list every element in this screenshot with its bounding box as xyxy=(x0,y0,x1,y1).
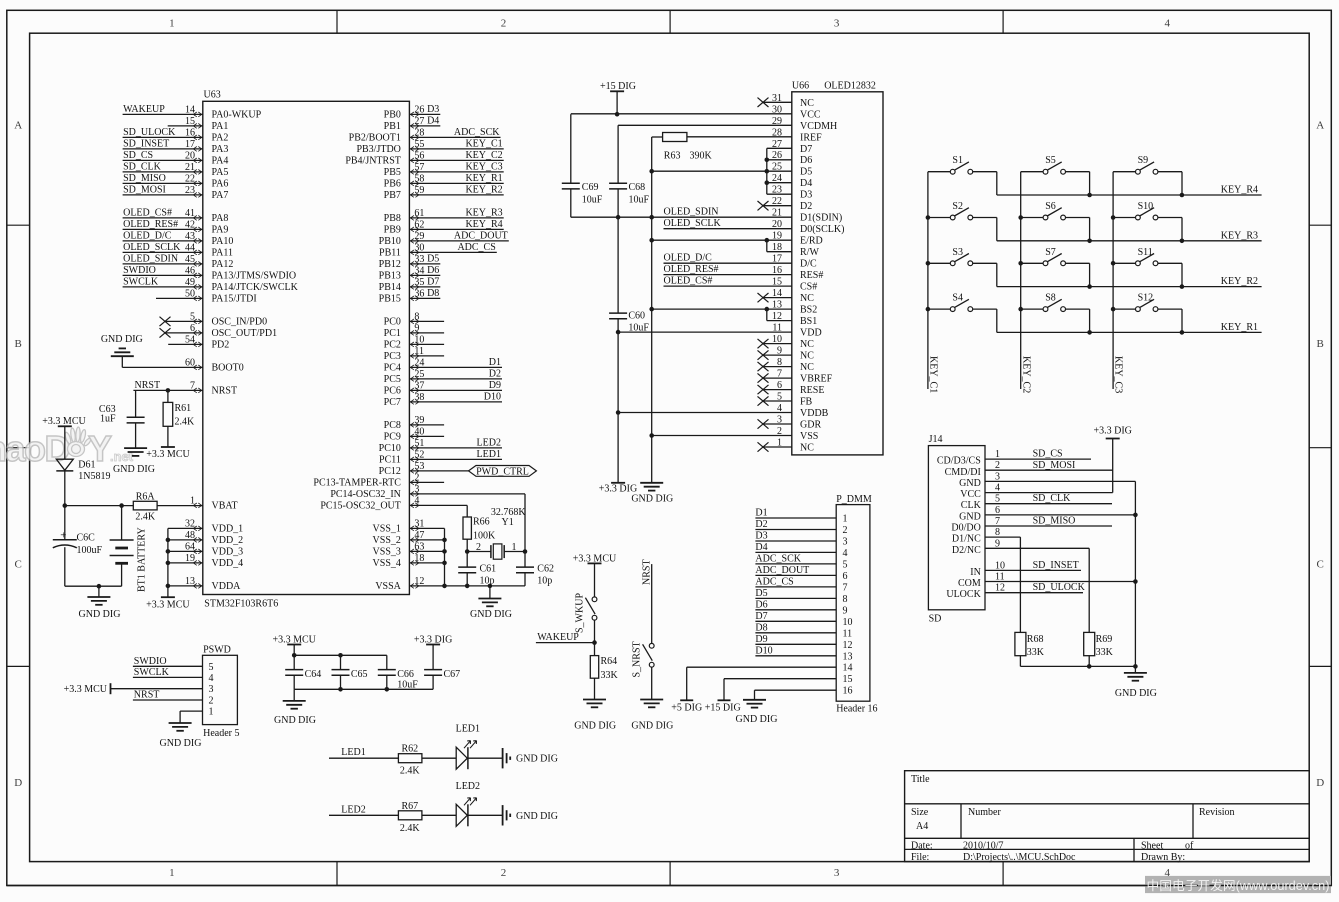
svg-text:D1/NC: D1/NC xyxy=(952,534,981,545)
svg-text:A4: A4 xyxy=(916,821,928,832)
svg-text:GND DIG: GND DIG xyxy=(516,811,558,822)
svg-text:C66: C66 xyxy=(397,669,414,680)
svg-text:S_NRST: S_NRST xyxy=(632,641,643,677)
svg-text:4: 4 xyxy=(209,673,214,684)
svg-text:J14: J14 xyxy=(929,434,943,445)
svg-text:S3: S3 xyxy=(952,247,963,258)
svg-text:OLED_SDIN: OLED_SDIN xyxy=(664,207,719,218)
svg-text:U66: U66 xyxy=(792,81,809,92)
svg-text:+3.3 MCU: +3.3 MCU xyxy=(64,684,108,695)
svg-text:PA10: PA10 xyxy=(212,236,234,247)
svg-text:R61: R61 xyxy=(175,403,192,414)
svg-text:IREF: IREF xyxy=(800,132,822,143)
svg-text:+3.3 MCU: +3.3 MCU xyxy=(146,449,190,460)
svg-text:1: 1 xyxy=(843,514,848,525)
svg-text:KEY_C3: KEY_C3 xyxy=(1113,356,1124,393)
svg-text:VCC: VCC xyxy=(960,489,981,500)
svg-text:LED1: LED1 xyxy=(477,449,501,460)
svg-text:PC15-OSC32_OUT: PC15-OSC32_OUT xyxy=(320,501,401,512)
svg-text:FB: FB xyxy=(800,397,813,408)
svg-text:PA7: PA7 xyxy=(212,190,229,201)
svg-text:4: 4 xyxy=(843,548,848,559)
svg-text:1: 1 xyxy=(169,18,175,30)
svg-text:WAKEUP: WAKEUP xyxy=(123,104,165,115)
svg-text:R66: R66 xyxy=(473,516,490,527)
svg-text:GND DIG: GND DIG xyxy=(160,738,202,749)
svg-text:PWD_CTRL: PWD_CTRL xyxy=(476,466,529,477)
svg-text:100K: 100K xyxy=(473,530,496,541)
svg-text:PC13-TAMPER-RTC: PC13-TAMPER-RTC xyxy=(313,478,401,489)
svg-text:11: 11 xyxy=(843,628,853,639)
svg-text:PC7: PC7 xyxy=(384,397,401,408)
svg-text:D2/NC: D2/NC xyxy=(952,545,981,556)
svg-text:PB1: PB1 xyxy=(384,121,401,132)
svg-text:D4: D4 xyxy=(755,542,767,553)
svg-text:PC3: PC3 xyxy=(384,351,401,362)
svg-text:KEY_R3: KEY_R3 xyxy=(465,207,502,218)
svg-text:E/RD: E/RD xyxy=(800,236,823,247)
svg-text:PB3/JTDO: PB3/JTDO xyxy=(356,144,400,155)
svg-text:D8: D8 xyxy=(427,288,439,299)
svg-text:BS2: BS2 xyxy=(800,305,817,316)
svg-text:PC14-OSC32_IN: PC14-OSC32_IN xyxy=(330,489,401,500)
svg-text:SD_MOSI: SD_MOSI xyxy=(123,184,166,195)
svg-text:Sheet: Sheet xyxy=(1141,841,1163,852)
svg-text:NC: NC xyxy=(800,351,814,362)
svg-text:D3: D3 xyxy=(427,104,439,115)
svg-text:C: C xyxy=(15,559,22,571)
svg-text:Y1: Y1 xyxy=(502,517,514,528)
svg-text:VBAT: VBAT xyxy=(212,501,238,512)
svg-text:NRST: NRST xyxy=(212,386,238,397)
svg-text:R63: R63 xyxy=(664,150,681,161)
svg-text:PA3: PA3 xyxy=(212,144,229,155)
svg-text:VCC: VCC xyxy=(800,109,821,120)
svg-text:2.4K: 2.4K xyxy=(400,766,421,777)
svg-text:D/C: D/C xyxy=(800,259,817,270)
svg-text:LED1: LED1 xyxy=(341,747,365,758)
svg-text:S9: S9 xyxy=(1138,155,1149,166)
svg-text:D3: D3 xyxy=(755,531,767,542)
svg-text:PB2/BOOT1: PB2/BOOT1 xyxy=(349,133,401,144)
svg-text:7: 7 xyxy=(843,582,848,593)
svg-text:PB12: PB12 xyxy=(379,259,401,270)
svg-text:10p: 10p xyxy=(537,576,552,587)
svg-text:SD_CLK: SD_CLK xyxy=(1033,493,1072,504)
svg-text:U63: U63 xyxy=(204,90,221,101)
svg-text:8: 8 xyxy=(843,594,848,605)
svg-text:ADC_CS: ADC_CS xyxy=(755,576,793,587)
svg-text:D1: D1 xyxy=(489,357,501,368)
svg-text:SD_INSET: SD_INSET xyxy=(123,138,169,149)
svg-text:PC11: PC11 xyxy=(379,455,401,466)
svg-text:ADC_DOUT: ADC_DOUT xyxy=(755,565,809,576)
svg-text:VSSA: VSSA xyxy=(375,581,401,592)
svg-text:+15 DIG: +15 DIG xyxy=(705,702,741,713)
svg-text:PB10: PB10 xyxy=(379,236,401,247)
svg-text:VDD: VDD xyxy=(800,328,822,339)
svg-text:D7: D7 xyxy=(800,144,812,155)
svg-text:SD_CS: SD_CS xyxy=(1033,449,1063,460)
svg-text:Date:: Date: xyxy=(911,841,933,852)
svg-text:1: 1 xyxy=(209,707,214,718)
svg-text:PA2: PA2 xyxy=(212,133,229,144)
svg-text:PB13: PB13 xyxy=(379,271,401,282)
svg-text:SD_CLK: SD_CLK xyxy=(123,161,162,172)
svg-text:SD_ULOCK: SD_ULOCK xyxy=(123,127,176,138)
svg-text:PA8: PA8 xyxy=(212,213,229,224)
svg-text:P_DMM: P_DMM xyxy=(836,494,872,505)
svg-text:S1: S1 xyxy=(952,155,963,166)
svg-text:D4: D4 xyxy=(427,115,439,126)
svg-text:CLK: CLK xyxy=(961,500,982,511)
svg-text:13: 13 xyxy=(843,651,853,662)
svg-text:GND: GND xyxy=(959,511,981,522)
svg-text:GND DIG: GND DIG xyxy=(516,754,558,765)
svg-text:Number: Number xyxy=(968,807,1001,818)
svg-text:B: B xyxy=(15,338,22,350)
svg-text:GND DIG: GND DIG xyxy=(631,720,673,731)
svg-text:Header 16: Header 16 xyxy=(836,704,877,715)
svg-text:S_WKUP: S_WKUP xyxy=(575,593,586,633)
svg-text:+3.3 MCU: +3.3 MCU xyxy=(146,599,190,610)
svg-text:10uF: 10uF xyxy=(582,194,603,205)
svg-text:2: 2 xyxy=(476,542,481,553)
svg-text:PA12: PA12 xyxy=(212,259,234,270)
svg-text:PA9: PA9 xyxy=(212,225,229,236)
svg-text:2010/10/7: 2010/10/7 xyxy=(963,841,1004,852)
svg-text:D9: D9 xyxy=(755,634,767,645)
svg-text:S6: S6 xyxy=(1045,201,1056,212)
svg-text:GND DIG: GND DIG xyxy=(574,720,616,731)
svg-text:PC10: PC10 xyxy=(379,443,401,454)
svg-text:D2: D2 xyxy=(489,368,501,379)
svg-text:R64: R64 xyxy=(601,656,618,667)
svg-text:PA0-WKUP: PA0-WKUP xyxy=(212,110,262,121)
svg-text:B: B xyxy=(1317,338,1324,350)
svg-text:A: A xyxy=(1316,120,1324,132)
svg-text:PC9: PC9 xyxy=(384,432,401,443)
svg-text:C64: C64 xyxy=(305,669,322,680)
svg-text:+3.3 DIG: +3.3 DIG xyxy=(1093,426,1131,437)
svg-text:R/W: R/W xyxy=(800,247,819,258)
svg-text:GND DIG: GND DIG xyxy=(1115,688,1157,699)
svg-text:PC4: PC4 xyxy=(384,363,401,374)
svg-text:D8: D8 xyxy=(755,622,767,633)
svg-text:R68: R68 xyxy=(1027,634,1044,645)
svg-text:COM: COM xyxy=(958,578,981,589)
svg-text:PB11: PB11 xyxy=(379,248,401,259)
svg-text:10: 10 xyxy=(843,617,853,628)
svg-text:SWCLK: SWCLK xyxy=(123,276,159,287)
svg-text:+15 DIG: +15 DIG xyxy=(600,81,636,92)
svg-text:VDD_2: VDD_2 xyxy=(212,535,244,546)
svg-text:1uF: 1uF xyxy=(100,413,116,424)
svg-text:R67: R67 xyxy=(401,801,418,812)
svg-text:VDD_1: VDD_1 xyxy=(212,524,244,535)
svg-text:SD_ULOCK: SD_ULOCK xyxy=(1033,582,1086,593)
svg-text:SD_MOSI: SD_MOSI xyxy=(1033,460,1076,471)
svg-text:A: A xyxy=(14,120,22,132)
svg-text:1: 1 xyxy=(169,867,175,879)
svg-text:PA1: PA1 xyxy=(212,121,229,132)
svg-text:OLED_D/C: OLED_D/C xyxy=(123,230,172,241)
svg-text:100uF: 100uF xyxy=(77,545,103,556)
svg-text:D6: D6 xyxy=(755,599,767,610)
svg-text:File:: File: xyxy=(911,852,929,863)
svg-text:C65: C65 xyxy=(351,669,368,680)
svg-text:33K: 33K xyxy=(1027,647,1045,658)
svg-text:D3: D3 xyxy=(800,190,812,201)
svg-text:KEY_R1: KEY_R1 xyxy=(465,173,502,184)
svg-text:KEY_R4: KEY_R4 xyxy=(465,219,502,230)
svg-text:14: 14 xyxy=(843,663,853,674)
svg-text:PA14/JTCK/SWCLK: PA14/JTCK/SWCLK xyxy=(212,282,299,293)
svg-text:Title: Title xyxy=(911,774,930,785)
svg-text:LED2: LED2 xyxy=(477,437,501,448)
svg-text:OSC_IN/PD0: OSC_IN/PD0 xyxy=(212,317,268,328)
svg-text:KEY_C2: KEY_C2 xyxy=(1020,356,1031,393)
svg-text:PSWD: PSWD xyxy=(203,645,231,656)
svg-text:PC6: PC6 xyxy=(384,386,401,397)
svg-text:VSS_4: VSS_4 xyxy=(373,558,401,569)
svg-text:D5: D5 xyxy=(800,167,812,178)
svg-text:KEY_C1: KEY_C1 xyxy=(465,138,502,149)
svg-text:OLED_CS#: OLED_CS# xyxy=(123,207,172,218)
svg-text:GND: GND xyxy=(959,478,981,489)
svg-text:D9: D9 xyxy=(489,380,501,391)
svg-text:BOOT0: BOOT0 xyxy=(212,363,244,374)
svg-text:33K: 33K xyxy=(601,670,619,681)
svg-text:VDD_4: VDD_4 xyxy=(212,558,244,569)
svg-text:SWDIO: SWDIO xyxy=(134,656,167,667)
svg-text:PA6: PA6 xyxy=(212,179,229,190)
svg-text:RES#: RES# xyxy=(800,270,823,281)
svg-text:LED2: LED2 xyxy=(341,804,365,815)
svg-text:D61: D61 xyxy=(78,460,95,471)
svg-text:D0/DO: D0/DO xyxy=(951,523,980,534)
svg-text:OLED_D/C: OLED_D/C xyxy=(664,253,713,264)
svg-text:C67: C67 xyxy=(444,669,461,680)
svg-text:VBREF: VBREF xyxy=(800,374,833,385)
svg-text:C: C xyxy=(1317,559,1324,571)
svg-text:D0(SCLK): D0(SCLK) xyxy=(800,224,844,235)
svg-text:+5 DIG: +5 DIG xyxy=(671,702,702,713)
svg-text:2: 2 xyxy=(501,18,507,30)
svg-text:OLED_SDIN: OLED_SDIN xyxy=(123,253,178,264)
svg-text:SWDIO: SWDIO xyxy=(123,265,156,276)
svg-text:D10: D10 xyxy=(755,645,772,656)
svg-text:PA15/JTDI: PA15/JTDI xyxy=(212,294,257,305)
svg-text:R62: R62 xyxy=(401,744,418,755)
svg-text:S5: S5 xyxy=(1045,155,1056,166)
svg-text:S11: S11 xyxy=(1138,247,1153,258)
svg-text:PA5: PA5 xyxy=(212,167,229,178)
svg-text:9: 9 xyxy=(843,605,848,616)
svg-text:S7: S7 xyxy=(1045,247,1056,258)
svg-text:ADC_CS: ADC_CS xyxy=(457,242,495,253)
svg-text:D5: D5 xyxy=(755,588,767,599)
svg-text:OLED_RES#: OLED_RES# xyxy=(664,264,719,275)
svg-text:2.4K: 2.4K xyxy=(135,512,156,523)
svg-text:KEY_C1: KEY_C1 xyxy=(928,356,939,393)
svg-text:2.4K: 2.4K xyxy=(175,417,196,428)
svg-text:Header 5: Header 5 xyxy=(203,728,239,739)
svg-text:BT1 BATTERY: BT1 BATTERY xyxy=(137,527,148,592)
svg-text:NC: NC xyxy=(800,339,814,350)
svg-text:6: 6 xyxy=(843,571,848,582)
svg-text:LED1: LED1 xyxy=(456,724,480,735)
svg-text:12: 12 xyxy=(843,640,853,651)
svg-text:S8: S8 xyxy=(1045,293,1056,304)
svg-text:ADC_SCK: ADC_SCK xyxy=(454,127,500,138)
svg-text:PB4/JNTRST: PB4/JNTRST xyxy=(345,156,401,167)
svg-text:5: 5 xyxy=(843,559,848,570)
svg-text:R69: R69 xyxy=(1096,634,1113,645)
svg-text:15: 15 xyxy=(843,674,853,685)
svg-text:D10: D10 xyxy=(484,391,501,402)
svg-text:WAKEUP: WAKEUP xyxy=(537,632,579,643)
svg-text:STM32F103R6T6: STM32F103R6T6 xyxy=(204,599,278,610)
svg-text:SD_MISO: SD_MISO xyxy=(1033,516,1076,527)
svg-text:S12: S12 xyxy=(1138,293,1154,304)
svg-text:CS#: CS# xyxy=(800,282,817,293)
svg-text:10uF: 10uF xyxy=(629,194,650,205)
svg-text:3: 3 xyxy=(834,18,840,30)
svg-text:Revision: Revision xyxy=(1199,807,1235,818)
svg-text:D4: D4 xyxy=(800,178,812,189)
svg-text:2: 2 xyxy=(501,867,507,879)
svg-text:PC12: PC12 xyxy=(379,466,401,477)
svg-text:C6C: C6C xyxy=(77,533,96,544)
svg-text:3: 3 xyxy=(834,867,840,879)
svg-text:of: of xyxy=(1185,841,1194,852)
svg-text:PC1: PC1 xyxy=(384,328,401,339)
svg-text:PB15: PB15 xyxy=(379,294,401,305)
svg-text:Drawn By:: Drawn By: xyxy=(1141,852,1185,863)
svg-text:KEY_R3: KEY_R3 xyxy=(1221,230,1258,241)
svg-text:VSS: VSS xyxy=(800,431,818,442)
svg-text:NRST: NRST xyxy=(135,380,161,391)
svg-text:OLED12832: OLED12832 xyxy=(824,81,876,92)
svg-text:10p: 10p xyxy=(480,576,495,587)
svg-text:PD2: PD2 xyxy=(212,340,230,351)
svg-text:D7: D7 xyxy=(427,276,439,287)
svg-text:GND DIG: GND DIG xyxy=(631,494,673,505)
svg-text:ULOCK: ULOCK xyxy=(946,589,981,600)
svg-text:VDDB: VDDB xyxy=(800,408,829,419)
svg-text:NRST: NRST xyxy=(642,559,653,585)
svg-text:BS1: BS1 xyxy=(800,316,817,327)
svg-text:10uF: 10uF xyxy=(397,680,418,691)
svg-text:KEY_R1: KEY_R1 xyxy=(1221,322,1258,333)
svg-text:ADC_SCK: ADC_SCK xyxy=(755,553,801,564)
svg-text:PC2: PC2 xyxy=(384,340,401,351)
svg-text:GND DIG: GND DIG xyxy=(274,715,316,726)
svg-text:Size: Size xyxy=(911,807,929,818)
svg-text:NRST: NRST xyxy=(134,690,160,701)
svg-text:LED2: LED2 xyxy=(456,781,480,792)
svg-text:VSS_3: VSS_3 xyxy=(373,547,401,558)
svg-text:C62: C62 xyxy=(537,564,554,575)
svg-text:S4: S4 xyxy=(952,293,963,304)
svg-text:PB8: PB8 xyxy=(384,213,401,224)
svg-text:PB9: PB9 xyxy=(384,225,401,236)
svg-text:PC0: PC0 xyxy=(384,317,401,328)
svg-text:KEY_R2: KEY_R2 xyxy=(1221,276,1258,287)
svg-text:NC: NC xyxy=(800,443,814,454)
svg-text:PB6: PB6 xyxy=(384,179,401,190)
svg-text:PC8: PC8 xyxy=(384,420,401,431)
svg-text:33K: 33K xyxy=(1096,647,1114,658)
svg-text:PA13/JTMS/SWDIO: PA13/JTMS/SWDIO xyxy=(212,271,297,282)
svg-text:GND DIG: GND DIG xyxy=(113,464,155,475)
svg-text:1N5819: 1N5819 xyxy=(78,471,110,482)
svg-text:OLED_CS#: OLED_CS# xyxy=(664,276,713,287)
svg-text:D1(SDIN): D1(SDIN) xyxy=(800,213,842,224)
svg-text:3: 3 xyxy=(209,684,214,695)
svg-text:PC5: PC5 xyxy=(384,374,401,385)
svg-text:+: + xyxy=(60,530,66,542)
svg-text:2.4K: 2.4K xyxy=(400,823,421,834)
svg-text:SD_INSET: SD_INSET xyxy=(1033,560,1079,571)
svg-text:CD/D3/CS: CD/D3/CS xyxy=(937,456,981,467)
svg-text:SWCLK: SWCLK xyxy=(134,667,170,678)
svg-text:PA4: PA4 xyxy=(212,156,229,167)
svg-text:KEY_R4: KEY_R4 xyxy=(1221,185,1258,196)
svg-text:GND DIG: GND DIG xyxy=(79,609,121,620)
svg-text:RESE: RESE xyxy=(800,385,824,396)
svg-text:S10: S10 xyxy=(1138,201,1154,212)
svg-text:SD: SD xyxy=(929,614,942,625)
svg-text:D6: D6 xyxy=(427,265,439,276)
svg-text:D5: D5 xyxy=(427,253,439,264)
svg-text:VCDMH: VCDMH xyxy=(800,121,837,132)
svg-text:D6: D6 xyxy=(800,155,812,166)
svg-text:VSS_1: VSS_1 xyxy=(373,524,401,535)
svg-text:D:\Projects\..\MCU.SchDoc: D:\Projects\..\MCU.SchDoc xyxy=(963,852,1076,863)
svg-text:GDR: GDR xyxy=(800,420,821,431)
svg-text:GND DIG: GND DIG xyxy=(470,609,512,620)
svg-text:KEY_R2: KEY_R2 xyxy=(465,184,502,195)
svg-text:KEY_C3: KEY_C3 xyxy=(465,161,502,172)
svg-text:D7: D7 xyxy=(755,611,767,622)
svg-text:D: D xyxy=(1316,777,1324,789)
svg-text:C69: C69 xyxy=(582,182,599,193)
svg-text:390K: 390K xyxy=(690,150,713,161)
svg-text:PB0: PB0 xyxy=(384,110,401,121)
svg-text:1: 1 xyxy=(512,542,517,553)
svg-text:GND DIG: GND DIG xyxy=(736,714,778,725)
svg-text:GND DIG: GND DIG xyxy=(101,334,143,345)
svg-text:PB14: PB14 xyxy=(379,282,401,293)
svg-text:OLED_SCLK: OLED_SCLK xyxy=(664,218,722,229)
svg-text:VDD_3: VDD_3 xyxy=(212,547,244,558)
svg-text:CMD/DI: CMD/DI xyxy=(945,467,981,478)
svg-text:KEY_C2: KEY_C2 xyxy=(465,150,502,161)
svg-text:C60: C60 xyxy=(628,310,645,321)
svg-text:ADC_DOUT: ADC_DOUT xyxy=(454,230,508,241)
svg-text:IN: IN xyxy=(970,567,981,578)
svg-text:OSC_OUT/PD1: OSC_OUT/PD1 xyxy=(212,328,278,339)
svg-text:D2: D2 xyxy=(755,519,767,530)
svg-text:PA11: PA11 xyxy=(212,248,234,259)
svg-text:3: 3 xyxy=(843,537,848,548)
svg-text:NC: NC xyxy=(800,98,814,109)
svg-text:D2: D2 xyxy=(800,201,812,212)
svg-text:2: 2 xyxy=(209,696,214,707)
svg-text:5: 5 xyxy=(209,662,214,673)
